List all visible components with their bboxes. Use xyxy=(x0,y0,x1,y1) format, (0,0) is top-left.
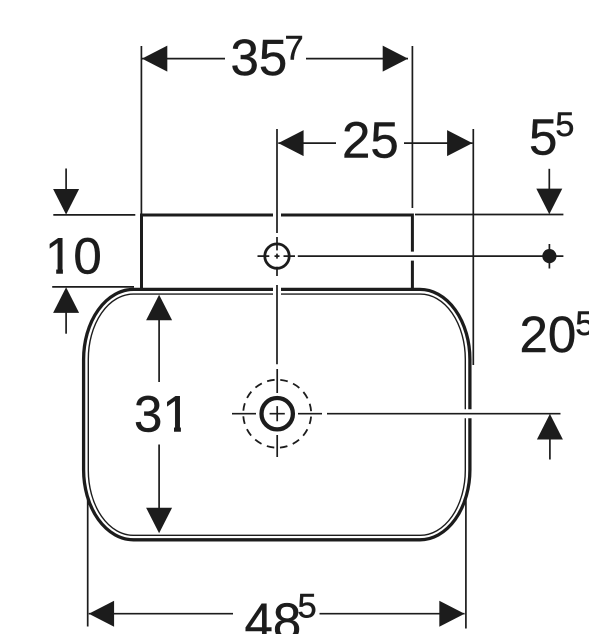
dimension 485: right extension line xyxy=(465,499,467,629)
dimension 357: left arrow xyxy=(142,46,167,72)
dimension 205: up arrow xyxy=(537,414,563,440)
dimension 10: up arrow tail xyxy=(65,312,67,334)
white patch trimming foot of digit 1 in label 10 xyxy=(45,266,56,275)
dimension 25: right arrow xyxy=(447,130,472,156)
dimension 357: right extension line xyxy=(411,46,413,208)
white patch trimming foot of digit 1 in label 31 xyxy=(162,424,174,434)
tap deck / ledge outline xyxy=(142,215,413,289)
svg-text:5: 5 xyxy=(529,109,557,166)
dimension 357: right arrow xyxy=(383,46,408,72)
dimension 55: down arrow xyxy=(536,189,562,215)
dimension 485: dimension line xyxy=(89,613,465,615)
tap hole centerline dashes xyxy=(258,255,296,257)
dimension 10: up arrow xyxy=(53,287,79,313)
svg-text:25: 25 xyxy=(342,112,399,169)
dimension 10: top extension line xyxy=(53,214,135,216)
svg-text:10: 10 xyxy=(45,228,102,285)
dimension 55: reference dot xyxy=(542,249,556,263)
dimension 10: bottom extension line xyxy=(52,286,134,288)
vertical centerline dashes at tap hole xyxy=(276,237,278,276)
dimension 485: left extension line xyxy=(87,496,89,627)
svg-text:35: 35 xyxy=(231,29,288,86)
svg-text:5: 5 xyxy=(575,305,589,343)
dimension 55: arrow tail xyxy=(548,169,550,190)
dimension 55: dot tick xyxy=(548,244,550,269)
svg-text:5: 5 xyxy=(555,106,574,144)
vertical centerline through tap hole and drain (white halo) xyxy=(273,129,281,364)
dimension 25: right extension line xyxy=(472,129,474,365)
dimension 485: left arrow xyxy=(89,601,114,627)
drain center cross xyxy=(270,406,285,421)
tap hole circle xyxy=(265,244,289,268)
dimension 55: extension line at deck top xyxy=(415,214,563,216)
drain dashed circle xyxy=(243,380,311,448)
dimension 25: left arrow xyxy=(278,130,303,156)
dimension 31: dimension line xyxy=(158,319,160,509)
dimension 31: down arrow xyxy=(146,508,172,534)
svg-text:48: 48 xyxy=(245,593,302,634)
dimension 25: dimension line xyxy=(278,142,472,144)
drain horizontal centerline to right (white halo) xyxy=(327,409,561,418)
dimension 357: dimension line xyxy=(142,58,408,60)
dimension 10: down arrow xyxy=(53,189,79,215)
dimension 205: arrow tail xyxy=(549,439,551,460)
drain solid circle xyxy=(262,398,293,429)
drain horizontal centerline to right xyxy=(327,413,561,415)
horizontal centerline of tap hole (white halo) xyxy=(298,252,564,261)
svg-text:7: 7 xyxy=(285,30,304,68)
dimension 10: down arrow tail xyxy=(65,169,67,191)
dimension 357: left extension line xyxy=(140,46,142,214)
basin outer rim xyxy=(84,289,470,539)
svg-text:5: 5 xyxy=(298,588,317,626)
drain tick marks xyxy=(232,369,322,457)
basin inner rim xyxy=(88,294,465,535)
dimension 31: up arrow xyxy=(146,295,172,321)
svg-text:20: 20 xyxy=(520,306,577,363)
dimension 485: right arrow xyxy=(439,601,464,627)
svg-text:31: 31 xyxy=(134,386,191,443)
horizontal centerline of tap hole xyxy=(298,255,564,257)
vertical centerline long segments xyxy=(276,129,278,364)
